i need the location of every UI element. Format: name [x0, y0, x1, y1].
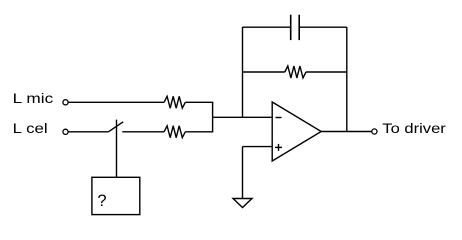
wire non-inverting input horizontal: [243, 146, 273, 148]
wire junction vertical: [212, 102, 214, 132]
ground: [233, 199, 252, 208]
wire feedback top right: [299, 26, 347, 28]
svg-text:L cel: L cel: [13, 120, 48, 136]
op-amp non-inverting pin marker: [275, 144, 282, 151]
op-amp U1: [272, 102, 321, 161]
capacitor C1: [291, 15, 300, 40]
switch S1 control stem: [116, 120, 118, 178]
wire feedback top left: [243, 26, 291, 28]
resistor R1: [164, 96, 185, 108]
svg-text:L mic: L mic: [13, 90, 54, 106]
resistor R3: [285, 66, 306, 78]
wire feedback right rail: [346, 27, 348, 132]
switch S1 blade: [108, 122, 123, 132]
wire R1 to junction: [185, 101, 213, 103]
wire to ground vertical: [242, 147, 244, 199]
wire R2 to junction: [185, 131, 213, 133]
svg-text:To driver: To driver: [382, 120, 446, 136]
wire junction to inverting input: [213, 116, 273, 118]
wire switch to R2: [122, 131, 164, 133]
wire feedback left rail: [242, 27, 244, 117]
wire feedback middle left: [243, 71, 285, 73]
wire L cel to switch: [68, 131, 108, 133]
svg-text:?: ?: [97, 192, 106, 210]
terminal L cel: [63, 129, 68, 134]
op-amp inverting pin marker: [276, 117, 282, 119]
terminal L mic: [63, 100, 68, 105]
wire feedback middle right: [306, 71, 347, 73]
wire op-amp output: [321, 131, 372, 133]
resistor R2: [164, 126, 185, 138]
terminal To driver: [372, 129, 377, 134]
box unknown block: [92, 177, 140, 214]
wire L mic to R1: [68, 101, 164, 103]
